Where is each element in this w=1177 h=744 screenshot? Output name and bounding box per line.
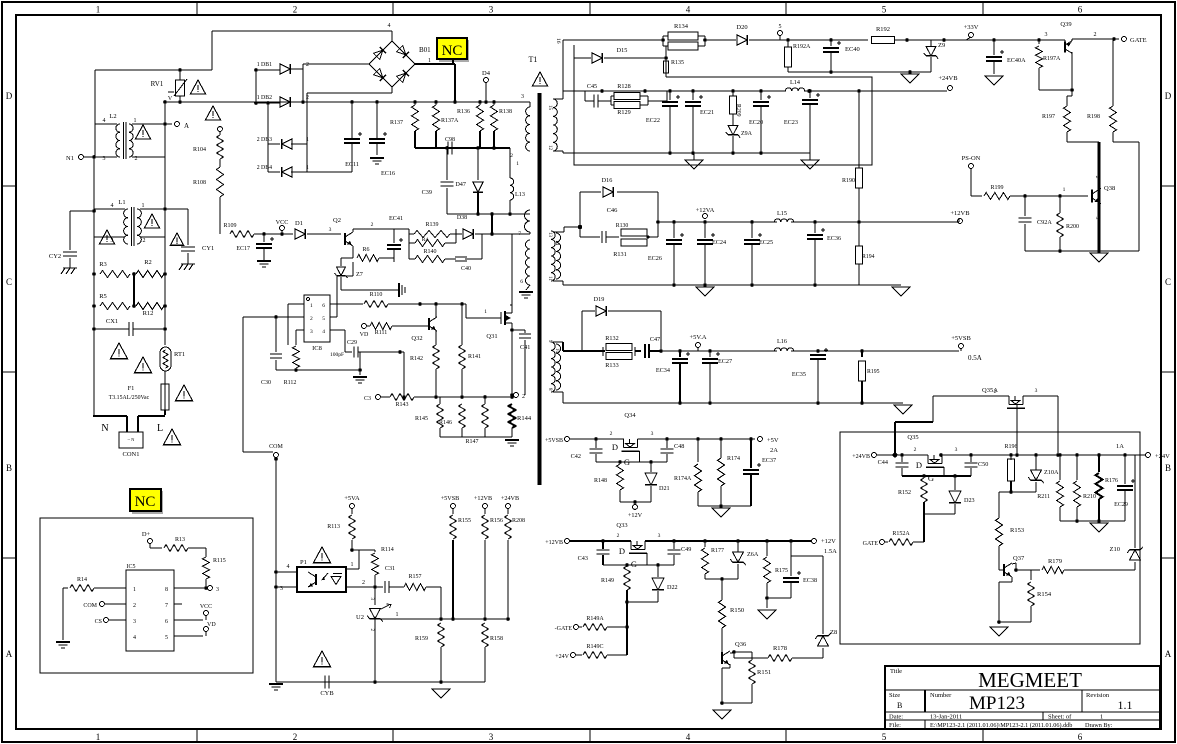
cap C49 <box>673 541 675 549</box>
wire 12VA rail <box>658 221 777 223</box>
svg-text:Revision: Revision <box>1086 692 1110 699</box>
svg-text:L16: L16 <box>777 338 787 345</box>
resistor R110 <box>364 301 388 308</box>
svg-text:D38: D38 <box>457 215 467 221</box>
resistor R158 <box>482 623 489 647</box>
ground C29 <box>353 376 367 378</box>
svg-text:4: 4 <box>133 635 136 641</box>
terminal +24VB left box <box>872 453 877 458</box>
svg-text:R110: R110 <box>370 292 383 298</box>
svg-text:3: 3 <box>955 447 958 453</box>
svg-text:3: 3 <box>329 227 332 233</box>
cap EC17 <box>263 234 265 242</box>
warning triangle T1 <box>532 72 547 86</box>
svg-text:3: 3 <box>1045 32 1048 38</box>
resistor R111 <box>370 323 392 330</box>
wire bulk bottom <box>340 171 352 173</box>
svg-text:U2: U2 <box>356 614 364 621</box>
wire Q39 emitter to GATE <box>1071 39 1073 41</box>
svg-text:R179: R179 <box>1048 558 1062 565</box>
resistor R195 box <box>861 351 863 357</box>
svg-text:0.5A: 0.5A <box>968 354 982 362</box>
svg-text:C92A: C92A <box>1037 219 1052 226</box>
svg-text:C46: C46 <box>607 207 619 214</box>
resistor R174A <box>697 439 699 462</box>
sense bottom wire <box>440 436 512 438</box>
wire Q37 base <box>998 563 1000 570</box>
cap C40 <box>445 258 456 260</box>
svg-text:N: N <box>101 423 108 434</box>
cap EC40A <box>993 40 995 55</box>
svg-text:Q2: Q2 <box>333 217 341 224</box>
wire R197 bottom thick <box>1067 141 1099 143</box>
svg-text:R137: R137 <box>390 120 403 126</box>
wire pin2 col down <box>275 317 277 352</box>
svg-text:C41: C41 <box>520 344 530 351</box>
svg-text:2: 2 <box>293 732 298 742</box>
wire R198 bottom <box>1113 141 1139 143</box>
diode D3 <box>463 229 473 239</box>
left rail to bottom <box>93 329 95 415</box>
svg-text:A: A <box>6 649 13 659</box>
wire Q37 emitter <box>1011 577 1013 582</box>
zener Z6A <box>737 541 739 552</box>
svg-text:R159: R159 <box>415 636 428 642</box>
svg-text:+24V: +24V <box>1155 453 1170 460</box>
wire R108 down <box>219 197 221 234</box>
bottom row Q37 <box>999 621 1031 623</box>
svg-text:R211: R211 <box>1037 494 1050 500</box>
terminal +24V mid <box>571 653 576 658</box>
resistor R177 <box>704 541 706 547</box>
terminal PS-ON <box>969 164 974 169</box>
wire R115 to pin8 <box>206 587 208 589</box>
svg-text:CY2: CY2 <box>49 253 61 260</box>
gate row Q33 <box>603 564 674 566</box>
node RV1 top <box>178 68 182 72</box>
svg-text:R145: R145 <box>415 416 428 422</box>
svg-text:R135: R135 <box>671 60 684 66</box>
svg-text:R104: R104 <box>193 147 206 153</box>
svg-text:GATE: GATE <box>863 541 879 547</box>
wire Q31 drain <box>511 304 513 306</box>
resistor R130 R131 pair <box>621 229 647 236</box>
svg-text:EC22: EC22 <box>646 117 660 124</box>
svg-text:C30: C30 <box>261 380 271 386</box>
resistor R14 <box>63 587 68 589</box>
wire L2 pin2 <box>132 156 165 158</box>
diode DB2 <box>280 97 290 107</box>
svg-text:T3.15AL/250Vac: T3.15AL/250Vac <box>109 395 150 401</box>
svg-text:NC: NC <box>442 43 463 59</box>
cap CY2 <box>63 251 77 253</box>
svg-text:12: 12 <box>547 145 552 151</box>
cap C92A <box>1024 196 1026 216</box>
cap C50 <box>970 455 972 462</box>
svg-text:D: D <box>1165 91 1172 101</box>
terminal +12VA <box>703 214 708 219</box>
terminal D4 <box>484 78 489 83</box>
cap CY1 <box>181 246 195 248</box>
svg-text:1: 1 <box>1100 714 1103 721</box>
wire T1 sec2 top <box>553 231 564 233</box>
inductor L15 <box>774 219 793 222</box>
node R5 row <box>132 304 136 308</box>
cap C29 <box>353 347 355 358</box>
wire L2 pin1 to A <box>132 123 172 125</box>
svg-text:R196: R196 <box>1004 444 1017 450</box>
cap C98 <box>447 142 449 155</box>
cap EC34 <box>679 351 681 357</box>
transistor Q2 <box>344 233 346 245</box>
terminal VCC <box>280 226 285 231</box>
terminal +12VB right <box>958 219 963 224</box>
svg-text:R149: R149 <box>601 578 614 584</box>
wire R178 left <box>733 652 735 658</box>
svg-text:Number: Number <box>930 692 952 699</box>
ground sense <box>505 439 519 441</box>
svg-text:EC34: EC34 <box>656 367 670 374</box>
svg-text:1: 1 <box>96 5 101 15</box>
svg-text:Z6A: Z6A <box>747 551 759 558</box>
svg-text:R155: R155 <box>458 518 471 524</box>
terminal 5 <box>778 31 783 36</box>
svg-text:EC40A: EC40A <box>1007 57 1026 64</box>
ground Q38 <box>1090 253 1108 262</box>
svg-text:B: B <box>897 701 902 710</box>
svg-text:+12VA: +12VA <box>696 207 715 214</box>
svg-text:D: D <box>6 91 13 101</box>
svg-text:R149A: R149A <box>586 616 604 622</box>
cap C41 <box>512 329 525 331</box>
cap C31 <box>384 581 386 593</box>
svg-text:+33V: +33V <box>964 24 979 31</box>
svg-text:1: 1 <box>96 732 101 742</box>
wire Q2 emitter <box>352 246 354 258</box>
svg-text:CX1: CX1 <box>106 318 118 325</box>
wire 5V rail <box>667 438 755 440</box>
svg-text:8: 8 <box>165 587 168 593</box>
svg-text:Date:: Date: <box>889 714 903 721</box>
diode D23 <box>954 476 956 490</box>
svg-text:EC35: EC35 <box>792 371 806 378</box>
svg-text:R142: R142 <box>410 356 423 362</box>
svg-text:1.5A: 1.5A <box>824 548 837 555</box>
svg-text:R194: R194 <box>862 254 875 260</box>
svg-text:3: 3 <box>1094 217 1100 220</box>
svg-text:D1: D1 <box>295 220 303 227</box>
svg-text:R174: R174 <box>727 456 740 462</box>
wire to CY2 <box>70 210 94 212</box>
svg-text:C3: C3 <box>364 396 371 402</box>
svg-text:R130: R130 <box>616 223 629 229</box>
terminal +12VB left <box>565 539 570 544</box>
wire 5VSB rail <box>569 438 624 440</box>
transistor Q38 <box>1091 189 1093 202</box>
warning triangle R104 <box>205 106 220 120</box>
resistor R152 <box>921 478 928 502</box>
wire gate col Q35 <box>923 514 925 542</box>
svg-text:+12VB: +12VB <box>950 210 970 217</box>
wire sec1 top <box>553 98 563 100</box>
svg-text:2: 2 <box>310 316 313 322</box>
svg-text:2: 2 <box>133 603 136 609</box>
resistor R145 <box>437 404 444 428</box>
svg-text:VCC: VCC <box>200 604 212 610</box>
resistor R128 R129 boxes <box>614 93 640 100</box>
wire left col to COM <box>243 316 276 318</box>
svg-text:3: 3 <box>310 329 313 335</box>
wire T1 pin16 to top rail <box>562 40 564 91</box>
svg-text:C40: C40 <box>461 266 471 272</box>
svg-text:14: 14 <box>554 240 559 246</box>
svg-text:Z8: Z8 <box>830 629 837 636</box>
bridge diode 3 <box>373 68 385 80</box>
svg-text:100pF: 100pF <box>330 352 344 358</box>
wire pin2 row <box>359 586 383 588</box>
terminal +5VSB left <box>565 437 570 442</box>
cap EC20 <box>760 91 762 100</box>
resistor R146 <box>459 404 466 428</box>
resistor R136 <box>477 105 484 131</box>
warning triangle near L2 <box>135 125 150 139</box>
terminal VD <box>362 324 367 329</box>
terminal GATE <box>1122 37 1127 42</box>
wire R197A to Q39 collector <box>1039 89 1072 91</box>
svg-text:Q38: Q38 <box>1104 185 1115 192</box>
bridge diode 2 <box>396 45 408 57</box>
resistor R113 <box>351 508 353 514</box>
terminal C3 <box>376 395 381 400</box>
resistor R197 <box>1064 106 1071 132</box>
svg-text:EC17: EC17 <box>236 246 250 252</box>
svg-text:L1: L1 <box>118 199 125 206</box>
svg-text:RT1: RT1 <box>174 351 185 358</box>
svg-text:2: 2 <box>1094 32 1097 38</box>
svg-text:3: 3 <box>111 238 114 244</box>
cap C39 <box>441 181 454 183</box>
resistor R211 <box>1076 455 1078 480</box>
svg-text:C44: C44 <box>878 459 888 466</box>
resistor R192 box <box>872 37 895 44</box>
svg-text:G: G <box>928 473 934 483</box>
terminal +24VB right <box>948 86 953 91</box>
svg-text:R147: R147 <box>465 439 478 445</box>
optocoupler P1 box <box>297 567 346 592</box>
svg-text:D: D <box>612 442 618 452</box>
wire D15 left col <box>573 45 575 58</box>
wire PS-ON down <box>970 168 972 196</box>
bridge diode 1 <box>373 47 385 59</box>
resistor R135 box <box>664 61 669 73</box>
resistor R144 <box>509 404 516 428</box>
svg-text:D: D <box>916 460 922 470</box>
wire Q38 collector <box>1098 142 1101 189</box>
svg-text:EC16: EC16 <box>381 170 395 177</box>
svg-text:3: 3 <box>103 156 106 162</box>
node sense row <box>510 393 514 397</box>
feedback box outline <box>574 45 872 165</box>
wire P1 pin1 <box>351 550 353 563</box>
cap C42 <box>595 439 597 448</box>
wire R192A EC40 bottom <box>788 71 910 73</box>
diode D1 <box>295 229 305 239</box>
resistor R178 <box>734 657 766 659</box>
ground R175 <box>758 610 776 619</box>
svg-text:+5V: +5V <box>767 437 779 444</box>
thermistor RT1 <box>160 347 171 371</box>
wire D19 col <box>581 311 583 343</box>
wire 24V rail <box>876 454 928 456</box>
bottom thick wires to CON1 <box>93 415 95 417</box>
svg-text:Z9: Z9 <box>938 42 945 49</box>
wire L to bridge top <box>211 31 213 70</box>
svg-text:2: 2 <box>143 238 146 244</box>
wire R110 on to Q32 collector <box>420 303 466 305</box>
wire EC41 bus <box>394 228 409 230</box>
ground EC40A <box>985 76 1003 85</box>
svg-text:D+: D+ <box>142 531 151 538</box>
diode D15 <box>574 57 591 59</box>
cap EC24 <box>704 222 706 238</box>
resistor R210 <box>1059 455 1061 480</box>
title block column lines <box>924 690 926 712</box>
wire R148 D21 bottom <box>620 501 651 503</box>
bridge diode 4 <box>396 70 408 82</box>
resistor R152A <box>884 541 888 543</box>
wire R134 to D20 <box>705 39 736 41</box>
wire pin1 col <box>358 550 360 569</box>
svg-text:R197: R197 <box>1042 114 1055 120</box>
wire top L rail <box>95 69 212 71</box>
svg-text:R198: R198 <box>1087 114 1100 120</box>
terminal D+ <box>148 539 153 544</box>
wire Q2 collector <box>352 229 354 232</box>
wire Q32 collector <box>435 304 437 318</box>
svg-text:D: D <box>619 546 625 556</box>
node pin2 row <box>373 585 377 589</box>
wire Q39 base <box>1057 39 1065 41</box>
svg-text:A: A <box>1165 649 1172 659</box>
svg-text:R152: R152 <box>898 490 911 496</box>
T1 aux ground <box>526 285 530 290</box>
wire mid node down <box>721 579 723 600</box>
wire Q32 emitter <box>435 331 437 345</box>
ground top rail <box>909 72 911 74</box>
cap EC37 <box>750 439 752 468</box>
svg-text:R152A: R152A <box>892 531 910 537</box>
svg-text:R177: R177 <box>711 548 724 554</box>
wire sec1 bottom to box <box>553 150 563 152</box>
warning triangle mid <box>110 343 127 359</box>
cap C44 <box>901 455 903 462</box>
wire to CY1 <box>165 208 188 210</box>
warning triangle P1 <box>313 547 330 563</box>
TL431 U2 <box>374 587 376 605</box>
svg-text:Z9A: Z9A <box>741 131 753 137</box>
wire R123 to P1 pin1 <box>352 549 375 551</box>
svg-text:2: 2 <box>522 394 525 400</box>
diode DB1 <box>280 64 290 74</box>
svg-text:Z10: Z10 <box>1110 546 1120 553</box>
cap EC21 <box>692 91 694 100</box>
svg-text:Z7: Z7 <box>356 271 363 278</box>
resistor R176 <box>1098 455 1100 472</box>
svg-text:R209: R209 <box>735 104 741 117</box>
svg-text:6: 6 <box>520 279 523 285</box>
cap EC23 <box>809 91 811 98</box>
wire L1 pin1 <box>140 208 165 210</box>
resistor R142 <box>433 345 440 369</box>
svg-text:EC27: EC27 <box>718 358 732 365</box>
svg-text:3: 3 <box>521 94 524 100</box>
gate row Q34 <box>596 461 667 463</box>
ground Q36 <box>713 710 731 719</box>
cap EC26 <box>673 222 675 238</box>
terminal VCC pin6 <box>174 619 203 621</box>
svg-text:C48: C48 <box>674 443 684 450</box>
wire T1 sec3 top <box>553 341 563 343</box>
transistor Q39 pnp <box>1064 40 1066 45</box>
svg-text:2: 2 <box>617 533 620 539</box>
resistor R12 <box>136 303 164 310</box>
T1 aux winding <box>526 240 531 285</box>
wire R152 D23 bottom <box>924 513 955 515</box>
ground bottom left <box>269 683 283 685</box>
T1 sec winding1 <box>553 99 557 151</box>
svg-text:C47: C47 <box>650 336 660 343</box>
svg-text:COM: COM <box>83 603 97 609</box>
svg-text:R114: R114 <box>381 547 394 553</box>
choke L1 <box>124 209 128 244</box>
terminal +5VSB mid <box>451 504 456 509</box>
T1 primary winding upper <box>529 102 531 107</box>
svg-text:R132: R132 <box>605 335 618 342</box>
ground ref row <box>432 689 450 698</box>
wire IC8 pin5 <box>330 316 337 318</box>
wire IC8 pin2 left <box>276 316 304 318</box>
resistor R179 <box>1016 569 1040 571</box>
cap EC27 <box>709 351 711 357</box>
svg-text:EC37: EC37 <box>762 457 776 464</box>
resistor R198 <box>1110 106 1117 132</box>
svg-text:N1: N1 <box>66 155 74 162</box>
bridge rectifier B01 outline <box>369 41 415 87</box>
wire F1 bottom <box>164 410 166 415</box>
warning triangle F1 <box>175 385 192 401</box>
IC8 box <box>304 295 330 342</box>
wire down to R197 <box>1071 90 1073 96</box>
resistor R115 <box>203 557 210 579</box>
fuse F1 <box>161 384 169 410</box>
svg-text:L: L <box>157 423 163 434</box>
wire L1 pin3 <box>94 236 125 238</box>
diode DB3 <box>282 139 292 149</box>
svg-text:R157: R157 <box>408 574 421 580</box>
svg-text:EC38: EC38 <box>803 577 817 584</box>
svg-text:R190: R190 <box>842 178 855 184</box>
svg-text:EC24: EC24 <box>712 239 726 246</box>
wire P1 pin4 left <box>276 571 285 573</box>
svg-text:R150: R150 <box>730 607 744 614</box>
cap CX1 <box>128 322 130 336</box>
svg-text:R153: R153 <box>1010 527 1024 534</box>
svg-text:3: 3 <box>658 533 661 539</box>
svg-text:4: 4 <box>111 203 114 209</box>
bulk cap EC16 <box>376 102 378 138</box>
svg-text:T1: T1 <box>529 55 538 64</box>
wire IC8 pin6 R110 <box>330 303 363 305</box>
